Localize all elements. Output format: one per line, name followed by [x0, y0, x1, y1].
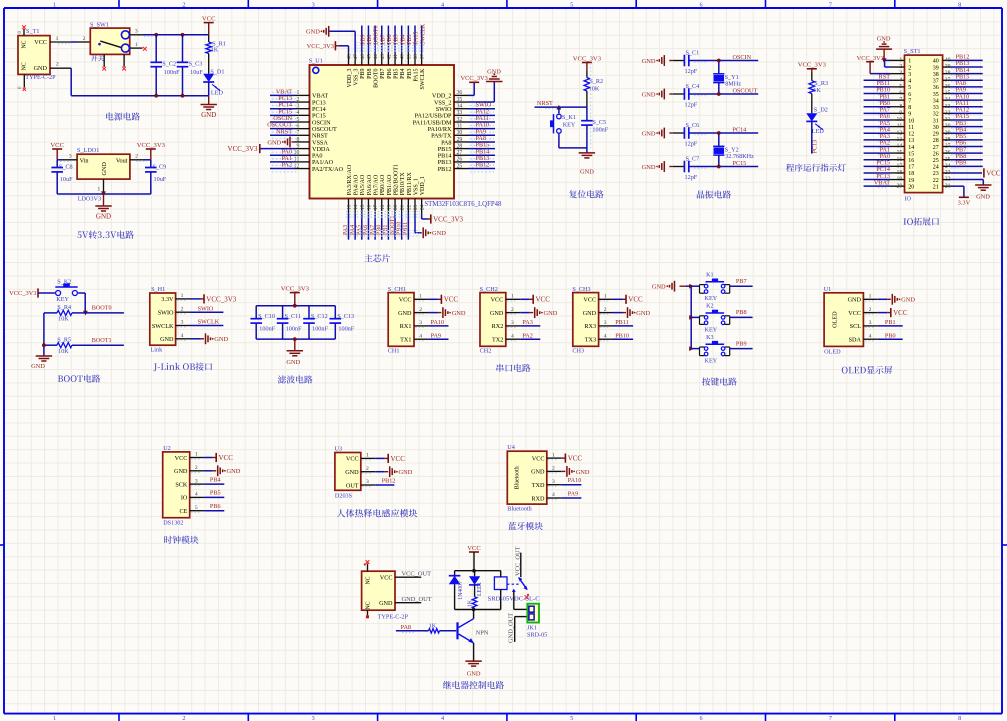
- ground GND at U2 pin2: [204, 470, 213, 472]
- U3 pin 3 OUT: [361, 484, 375, 486]
- title 5V转3.3V电路: [77, 231, 133, 239]
- title 电源电路: [106, 112, 140, 120]
- S_CH3 pin 4 TX3: [599, 338, 613, 340]
- S_ST1 left pin 16: [891, 159, 905, 161]
- svg-text:1: 1: [899, 58, 902, 64]
- wire key bottom to gnd rail: [558, 134, 560, 148]
- svg-text:2: 2: [195, 465, 198, 471]
- svg-text:S_D2: S_D2: [814, 107, 828, 114]
- svg-text:PB11: PB11: [615, 319, 629, 326]
- ground GND (reset): [579, 152, 595, 154]
- S_ST1 right pin 22: [943, 179, 951, 181]
- title 时钟模块: [164, 536, 198, 544]
- svg-text:7: 7: [899, 97, 902, 103]
- svg-text:PA9: PA9: [431, 332, 441, 339]
- svg-text:31: 31: [933, 118, 939, 124]
- svg-text:15: 15: [908, 151, 914, 157]
- svg-text:GND: GND: [267, 139, 281, 146]
- svg-text:VCC_3V3: VCC_3V3: [573, 55, 602, 62]
- U2 pin 4 IO: [190, 496, 204, 498]
- svg-text:47: 47: [353, 54, 359, 60]
- svg-text:VCC_3V3: VCC_3V3: [281, 285, 310, 292]
- svg-text:BOOT0: BOOT0: [92, 305, 112, 312]
- MCU S_U1 STM32F103C8T6 body: [310, 65, 455, 199]
- svg-text:PB5: PB5: [394, 34, 400, 44]
- S_U1 top pin 43 PB7: [381, 53, 383, 65]
- svg-text:2: 2: [181, 306, 184, 312]
- S_U1 right pin 25 PB12: [454, 168, 469, 170]
- wire and net label SWIO: [469, 108, 496, 110]
- svg-text:KEY: KEY: [56, 296, 69, 303]
- svg-text:37: 37: [933, 79, 939, 85]
- svg-text:17: 17: [897, 163, 903, 169]
- svg-text:32: 32: [933, 112, 939, 118]
- svg-text:PB11/RX: PB11/RX: [407, 172, 413, 196]
- wire power bottom rail: [50, 67, 71, 69]
- junction Y1 top: [717, 59, 721, 63]
- svg-text:42: 42: [386, 54, 392, 60]
- wire and net label SWCLK (jlink): [190, 325, 223, 327]
- power port VCC at ST1 pin23: [951, 172, 983, 174]
- svg-text:3: 3: [869, 320, 872, 326]
- svg-text:3: 3: [908, 72, 911, 78]
- module U4 Bluetooth body: [507, 451, 547, 504]
- svg-text:VCC_3V3: VCC_3V3: [9, 290, 36, 297]
- S_ST1 left pin 12: [891, 132, 905, 134]
- ground GND at U4 pin2: [560, 470, 563, 472]
- junction R5 left: [42, 343, 46, 347]
- wire and net label PA0 (ST1 pin 16): [864, 159, 891, 161]
- S_ST1 left pin 1: [891, 59, 905, 61]
- svg-text:8MHz: 8MHz: [725, 81, 741, 88]
- svg-text:GND: GND: [306, 29, 320, 36]
- svg-text:3: 3: [552, 479, 555, 485]
- svg-text:NC: NC: [366, 576, 372, 584]
- svg-text:12pF: 12pF: [685, 101, 698, 108]
- svg-text:U3: U3: [335, 446, 343, 453]
- junction LDO gnd: [101, 191, 106, 196]
- S_U1 left pin 3 PC14: [295, 108, 310, 110]
- push button K3 KEY: [699, 347, 701, 356]
- svg-text:15: 15: [360, 204, 366, 210]
- wire to key S_K1: [558, 107, 560, 113]
- svg-text:PA2: PA2: [522, 332, 532, 339]
- svg-text:S_ST1: S_ST1: [904, 48, 921, 55]
- capacitor S_C9 10uF: [150, 160, 152, 168]
- svg-text:S_C11: S_C11: [285, 313, 302, 320]
- svg-text:VCC: VCC: [568, 455, 583, 463]
- ground GND of LDO: [103, 194, 105, 206]
- svg-text:2: 2: [511, 307, 514, 313]
- svg-text:4: 4: [419, 333, 422, 339]
- wire and net label OSCIN: [270, 121, 295, 123]
- svg-text:4: 4: [604, 333, 607, 339]
- svg-text:NC: NC: [21, 62, 27, 70]
- S_T1 pin 1 VCC: [50, 41, 71, 43]
- S_CH1 pin 2 GND: [414, 312, 428, 314]
- svg-text:3.3V: 3.3V: [958, 200, 971, 207]
- U4 pin 1 VCC: [547, 457, 561, 459]
- svg-text:11: 11: [897, 124, 903, 130]
- S_U1 top pin 38 PA15: [414, 53, 416, 65]
- wire bus to K1: [691, 285, 699, 287]
- wire and net label PB10 (ST1 pin 6): [864, 93, 891, 95]
- svg-text:CH2: CH2: [480, 348, 492, 355]
- svg-text:PB0/AO: PB0/AO: [380, 174, 386, 195]
- title 滤波电路: [278, 375, 313, 383]
- svg-text:22: 22: [933, 178, 939, 184]
- U1 OLED pin 3 SCL: [863, 325, 877, 327]
- regulator S_LDO1 body: [77, 154, 130, 179]
- svg-text:38: 38: [413, 54, 419, 60]
- connector T2 TYPE-C-2P body (relay): [362, 571, 395, 610]
- wire and rotated net label PA3: [348, 214, 350, 240]
- S_SW1 bottom stubs no-connect: [103, 54, 105, 66]
- wire to net label OSCIN: [689, 60, 758, 62]
- wire and net label PA9 (ST1 pin 35): [951, 93, 983, 95]
- S_SW1 pin 3 output: [130, 34, 143, 36]
- connector S_CH1 body: [388, 293, 414, 347]
- title 按键电路: [702, 377, 737, 385]
- module U2 DS1302 body: [163, 452, 190, 518]
- svg-text:LDO3V3: LDO3V3: [78, 196, 101, 203]
- S_H1 pin 4 GND: [176, 338, 190, 340]
- S_ST1 right pin 37: [943, 79, 951, 81]
- S_U1 right pin 36 VDD_2: [454, 94, 469, 96]
- svg-text:K2: K2: [706, 303, 714, 310]
- svg-text:10uF: 10uF: [154, 176, 167, 183]
- svg-text:GND: GND: [901, 297, 915, 304]
- svg-text:8: 8: [296, 137, 299, 143]
- wire and net label PB1 (ST1 pin 7): [864, 99, 891, 101]
- wire and net label PB12: [469, 168, 496, 170]
- svg-text:PC13: PC13: [811, 140, 818, 154]
- svg-text:23: 23: [933, 171, 939, 177]
- svg-text:1N4007: 1N4007: [458, 581, 464, 600]
- svg-text:21: 21: [400, 204, 406, 210]
- svg-text:S_LDO1: S_LDO1: [77, 147, 99, 154]
- S_U1 top pin 39 PB3: [407, 53, 409, 65]
- svg-text:VCC: VCC: [536, 296, 551, 304]
- svg-text:GND: GND: [490, 310, 504, 317]
- svg-text:LED: LED: [812, 128, 825, 135]
- svg-text:VCC: VCC: [202, 15, 216, 22]
- svg-text:30: 30: [933, 125, 939, 131]
- power port VCC_3V3 at S_H1 pin1: [190, 298, 201, 300]
- S_H1 pin 3 SWCLK: [176, 325, 190, 327]
- capacitor S_C5 100nF: [590, 63, 592, 148]
- svg-text:30: 30: [945, 124, 951, 130]
- S_U1 pin1 marker circle: [313, 67, 319, 73]
- svg-text:GND: GND: [398, 310, 412, 317]
- resistor R 1K (led, vertical): [474, 585, 476, 597]
- wire VDD_1 to VCC_3V3: [421, 214, 423, 219]
- capacitor S_C1 12pF: [673, 60, 684, 62]
- power port VCC at S_CH3 pin1: [613, 298, 623, 300]
- ground GND at S_H1 pin4: [190, 338, 201, 340]
- svg-text:S_D1: S_D1: [210, 68, 224, 75]
- svg-text:2: 2: [552, 466, 555, 472]
- wire and net label PA3 at S_CH2 pin3: [520, 325, 540, 327]
- wire and net label PB15 (ST1 pin 37): [951, 79, 983, 81]
- svg-text:GND: GND: [531, 469, 545, 476]
- connector JK1 SRD-05 body: [527, 604, 539, 623]
- svg-text:SCL: SCL: [850, 323, 862, 330]
- svg-text:11: 11: [908, 125, 914, 131]
- wire and net label NRST: [270, 134, 295, 136]
- S_ST1 right pin 31: [943, 119, 951, 121]
- S_U1 bottom pin 13 PA3/RX/AO: [348, 199, 350, 214]
- svg-text:SCK: SCK: [175, 481, 188, 488]
- ground GND at S_U1 pin35 VSS_2: [469, 101, 495, 103]
- svg-text:16: 16: [366, 204, 372, 210]
- svg-text:30: 30: [457, 130, 463, 136]
- svg-text:1: 1: [908, 59, 911, 65]
- U2 pin 1 VCC: [190, 457, 204, 459]
- S_U1 right pin 29 PA8: [454, 141, 469, 143]
- ground GND at S_CH1 pin2: [428, 312, 438, 314]
- S_U1 right pin 35 VSS_2: [454, 101, 469, 103]
- svg-text:1: 1: [135, 42, 138, 48]
- svg-text:40: 40: [945, 58, 951, 64]
- wire left vertical (boot): [43, 313, 45, 356]
- svg-text:45: 45: [366, 54, 372, 60]
- svg-text:GND: GND: [432, 230, 446, 237]
- wire and net label PA2 (ST1 pin 14): [864, 145, 891, 147]
- svg-text:22: 22: [945, 177, 951, 183]
- svg-text:4: 4: [511, 333, 514, 339]
- svg-text:27: 27: [945, 144, 951, 150]
- title 复位电路: [569, 190, 604, 198]
- S_U1 bottom pin 21 PB10/TX: [401, 199, 403, 214]
- S_H1 pin 1 3.3V: [176, 298, 190, 300]
- S_CH2 pin 2 GND: [506, 312, 520, 314]
- svg-text:1: 1: [195, 452, 198, 458]
- svg-text:GND: GND: [642, 91, 656, 98]
- S_CH1 pin 3 RX1: [414, 325, 428, 327]
- svg-text:CH3: CH3: [572, 348, 584, 355]
- svg-text:U2: U2: [163, 445, 171, 452]
- capacitor S_C4 12pF: [673, 93, 684, 95]
- S_U1 right pin 31 PA10/RX: [454, 128, 469, 130]
- svg-text:2: 2: [296, 97, 299, 103]
- svg-text:24: 24: [933, 165, 939, 171]
- S_U1 bottom pin 24 VDD_1: [421, 199, 423, 214]
- wire and net label PA10 (ST1 pin 34): [951, 99, 983, 101]
- wire and rotated net label PA5: [361, 214, 363, 240]
- svg-text:PB10: PB10: [615, 332, 629, 339]
- svg-text:1: 1: [552, 452, 555, 458]
- svg-text:S_C7: S_C7: [686, 156, 700, 163]
- S_U1 right pin 33 PA12/USB/DP: [454, 114, 469, 116]
- svg-text:28: 28: [945, 137, 951, 143]
- wire and net label PA4 (ST1 pin 12): [864, 132, 891, 134]
- svg-text:BOOT0: BOOT0: [374, 25, 380, 44]
- svg-text:K3: K3: [706, 334, 714, 341]
- S_U1 right pin 30 PA9/TX: [454, 134, 469, 136]
- svg-text:39: 39: [933, 65, 939, 71]
- svg-text:VCC: VCC: [628, 296, 643, 304]
- svg-text:17: 17: [908, 165, 914, 171]
- svg-text:NRST: NRST: [537, 100, 553, 107]
- svg-text:46: 46: [360, 54, 366, 60]
- svg-text:PB4: PB4: [210, 476, 221, 483]
- svg-text:TYPE-C-2P: TYPE-C-2P: [378, 614, 409, 621]
- svg-text:VCC: VCC: [583, 297, 596, 304]
- svg-text:PB8: PB8: [736, 309, 747, 316]
- svg-text:PB7: PB7: [380, 34, 386, 44]
- ground GND at ST1 pin22: [951, 179, 984, 181]
- svg-text:K1: K1: [706, 271, 714, 278]
- power port VCC_3V3 at S_U1 pin9 VDDA: [260, 148, 295, 150]
- svg-text:PB9: PB9: [360, 69, 366, 79]
- S_ST1 left pin 17: [891, 165, 905, 167]
- S_ST1 left pin 13: [891, 139, 905, 141]
- svg-text:S_C12: S_C12: [311, 313, 328, 320]
- svg-text:PB12: PB12: [382, 477, 396, 484]
- svg-text:U1: U1: [824, 286, 832, 293]
- svg-text:100nF: 100nF: [338, 325, 354, 332]
- wire and net label PB7 (ST1 pin 26): [951, 152, 983, 154]
- junction Y2 bottom: [717, 165, 721, 169]
- svg-text:SDA: SDA: [849, 337, 862, 344]
- svg-text:PA9: PA9: [568, 490, 578, 497]
- S_ST1 right pin 40: [943, 59, 951, 61]
- resistor S_R2 10K: [586, 71, 588, 78]
- wire and net label PC14 (ST1 pin 18): [864, 172, 891, 174]
- junction Y1 bottom: [717, 92, 721, 96]
- svg-text:3: 3: [899, 71, 902, 77]
- S_ST1 right pin 35: [943, 93, 951, 95]
- svg-text:3: 3: [135, 29, 138, 35]
- svg-text:KEY: KEY: [563, 122, 576, 129]
- svg-text:10K: 10K: [58, 348, 69, 355]
- svg-text:PA5/AO: PA5/AO: [360, 174, 366, 195]
- svg-text:RX3: RX3: [584, 323, 596, 330]
- svg-text:PA4/AO: PA4/AO: [354, 174, 360, 195]
- svg-text:SWCLK: SWCLK: [420, 68, 426, 90]
- S_U1 right pin 26 PB13: [454, 161, 469, 163]
- svg-text:CH1: CH1: [388, 348, 400, 355]
- wire VSS_1 to GND: [414, 214, 416, 233]
- svg-text:4: 4: [296, 110, 299, 116]
- svg-text:1: 1: [181, 293, 184, 299]
- svg-text:27: 27: [933, 145, 939, 151]
- S_CH2 pin 4 TX2: [506, 338, 520, 340]
- S_U1 top pin 44 BOOT0: [374, 53, 376, 65]
- ground GND top-left of chip: [328, 26, 330, 37]
- svg-text:18: 18: [908, 171, 914, 177]
- S_ST1 left pin 6: [891, 93, 905, 95]
- wire and rotated net label PA7: [374, 214, 376, 240]
- svg-text:37: 37: [420, 54, 426, 60]
- svg-text:PB12: PB12: [476, 162, 490, 169]
- svg-text:9: 9: [908, 112, 911, 118]
- svg-text:36: 36: [457, 90, 463, 96]
- S_U1 right pin 28 PB15: [454, 148, 469, 150]
- junction key top: [557, 105, 562, 110]
- wire and net label PA11 (ST1 pin 33): [951, 106, 983, 108]
- svg-text:1K: 1K: [813, 87, 821, 94]
- wire and rotated net label BOOT1: [394, 214, 396, 240]
- svg-text:S_C3: S_C3: [189, 60, 203, 67]
- svg-text:PB9: PB9: [956, 160, 967, 167]
- wire and net label PA10 at U4 pin3: [561, 484, 581, 486]
- svg-text:S_C6: S_C6: [686, 122, 700, 129]
- S_SW1 pin 1 no-connect: [130, 47, 143, 49]
- svg-text:28: 28: [457, 143, 463, 149]
- svg-text:16: 16: [897, 157, 903, 163]
- svg-text:PB10/TX: PB10/TX: [400, 172, 406, 196]
- svg-text:26: 26: [457, 157, 463, 163]
- svg-text:1K: 1K: [467, 599, 473, 607]
- wire key to BOOT0 node: [78, 292, 85, 294]
- S_ST1 right pin 24: [943, 165, 951, 167]
- S_U1 top pin 41 PB5: [394, 53, 396, 65]
- svg-text:U4: U4: [507, 444, 515, 451]
- junction filter bottom: [293, 337, 297, 341]
- wire and net label SWIO (jlink): [190, 311, 223, 313]
- wire switch common to JK1 pin1: [513, 590, 515, 610]
- wire and net label VBAT: [270, 94, 295, 96]
- resistor S_R4 10K: [44, 312, 57, 314]
- power port 3.3V at ST1 pin21: [951, 185, 964, 187]
- capacitor S_C13 100nF: [334, 306, 336, 319]
- svg-text:Bluetooth: Bluetooth: [514, 466, 520, 489]
- S_ST1 left pin 3: [891, 73, 905, 75]
- wire and net label PB1 at OLED pin3: [878, 325, 903, 327]
- svg-text:PC15: PC15: [733, 160, 747, 167]
- svg-text:7: 7: [829, 715, 832, 721]
- svg-text:8: 8: [899, 104, 902, 110]
- power port VCC_3V3 bottom of chip: [430, 214, 432, 223]
- S_U1 left pin 11 PA1/AO: [295, 161, 310, 163]
- S_ST1 left pin 9: [891, 112, 905, 114]
- svg-text:S_CH1: S_CH1: [388, 286, 406, 293]
- svg-text:DS1302: DS1302: [163, 520, 183, 527]
- junction key bus K1: [689, 284, 694, 289]
- S_LDO1 pin 2 output wire: [130, 159, 143, 161]
- sheet border frame: [4, 7, 1002, 9]
- wire and net label PB0 (ST1 pin 8): [864, 106, 891, 108]
- S_H1 pin 2 SWIO: [176, 311, 190, 313]
- svg-text:3: 3: [604, 320, 607, 326]
- S_ST1 right pin 30: [943, 126, 951, 128]
- svg-text:SWCLK: SWCLK: [420, 23, 426, 45]
- S_ST1 left pin 5: [891, 86, 905, 88]
- svg-text:GND: GND: [636, 310, 650, 317]
- svg-text:14: 14: [897, 144, 903, 150]
- S_U1 bottom pin 20 PB2/BOOT1: [394, 199, 396, 214]
- wire and rotated net label PB6: [387, 26, 389, 53]
- push button K1 KEY: [699, 285, 701, 294]
- svg-text:2: 2: [419, 307, 422, 313]
- title 程序运行指示灯: [786, 164, 846, 172]
- power port VCC at S_CH1 pin1: [428, 298, 438, 300]
- svg-text:21: 21: [945, 183, 951, 189]
- svg-text:2: 2: [182, 2, 185, 9]
- S_ST1 right pin 25: [943, 159, 951, 161]
- wire S_T1 VCC to S_SW1 pin2: [71, 41, 77, 43]
- svg-text:TXD: TXD: [532, 482, 545, 489]
- svg-text:GND_OUT: GND_OUT: [402, 596, 432, 603]
- svg-text:VCC: VCC: [175, 455, 188, 462]
- svg-text:TX3: TX3: [585, 337, 596, 344]
- svg-text:19: 19: [908, 178, 914, 184]
- wire and rotated net label PB9: [361, 26, 363, 53]
- title 继电器控制电路: [443, 681, 504, 689]
- ground GND (S_C7 row): [663, 161, 665, 172]
